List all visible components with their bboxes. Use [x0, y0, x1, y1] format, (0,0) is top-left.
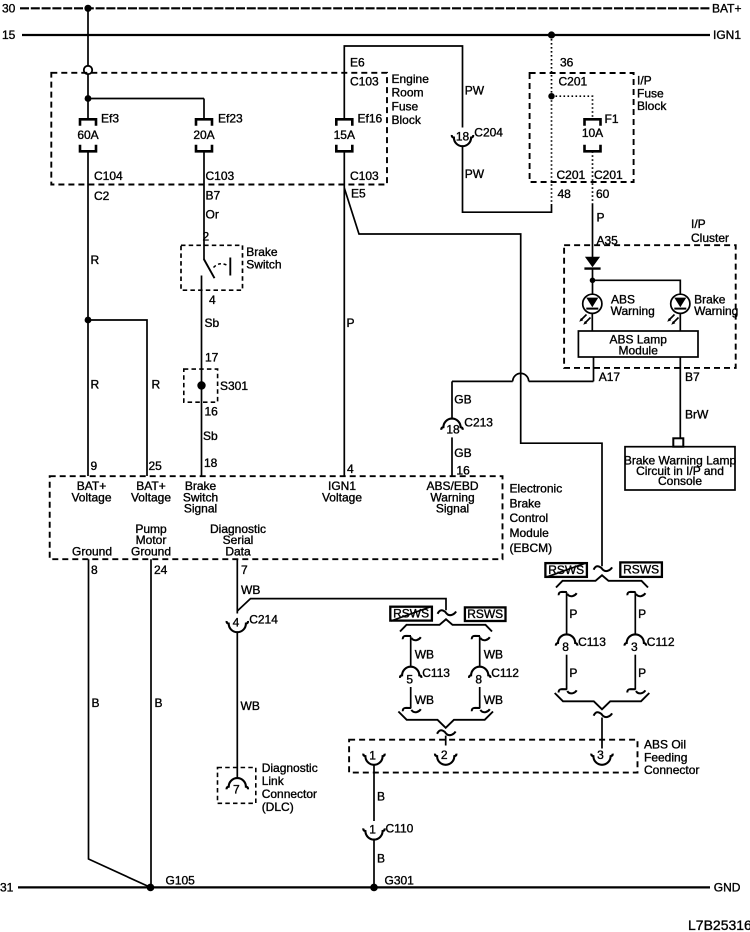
hook end right P branch	[627, 689, 635, 692]
wire to pin 48	[551, 96, 553, 204]
svg-text:P: P	[569, 607, 577, 621]
svg-text:10A: 10A	[582, 126, 603, 140]
svg-text:WB: WB	[241, 699, 260, 713]
connector C112 pin 8	[469, 667, 490, 678]
break symbol	[438, 610, 457, 615]
splice S301 box	[184, 369, 218, 402]
wire Sb switch to S301	[201, 276, 203, 477]
hook end left P branch	[559, 689, 567, 692]
svg-text:Signal: Signal	[184, 502, 217, 516]
svg-text:C214: C214	[249, 613, 278, 627]
svg-text:60A: 60A	[77, 128, 98, 142]
svg-text:18: 18	[446, 422, 460, 436]
svg-text:BrW: BrW	[685, 408, 709, 422]
fuse Ef16 15A	[336, 119, 352, 126]
svg-text:3: 3	[631, 640, 638, 654]
wire WB branch to C113	[410, 636, 412, 667]
wire P below C113	[566, 655, 568, 690]
RSWS box left struck	[390, 607, 432, 621]
node junction inside fuse block	[548, 93, 554, 99]
svg-text:Fuse: Fuse	[392, 99, 419, 113]
LED ABS warning	[583, 294, 602, 313]
hook end left branch	[403, 708, 411, 711]
svg-text:Connector: Connector	[644, 763, 699, 777]
svg-text:(DLC): (DLC)	[262, 800, 294, 814]
svg-text:Switch: Switch	[246, 257, 281, 271]
svg-text:WB: WB	[241, 583, 260, 597]
RSWS box right	[620, 562, 662, 577]
svg-text:Ef16: Ef16	[358, 111, 383, 125]
svg-text:P: P	[638, 666, 646, 680]
splice S301 dot	[197, 381, 205, 389]
wire WB horizontal to RSWS	[237, 599, 446, 611]
svg-text:B: B	[92, 696, 100, 710]
break symbol	[594, 712, 613, 717]
svg-text:P: P	[597, 211, 605, 225]
node G301	[370, 884, 378, 892]
svg-text:1: 1	[369, 748, 376, 762]
svg-text:B: B	[377, 790, 385, 804]
wire WB below C112	[479, 687, 481, 708]
svg-text:C113: C113	[578, 635, 606, 649]
svg-text:G105: G105	[166, 874, 196, 888]
svg-text:GND: GND	[714, 881, 741, 895]
svg-text:B: B	[155, 696, 163, 710]
svg-text:24: 24	[154, 563, 168, 577]
svg-text:P: P	[569, 666, 577, 680]
svg-text:WB: WB	[484, 693, 503, 707]
svg-text:RSWS: RSWS	[623, 562, 659, 576]
wire Or from Ef23 to brake switch	[203, 151, 205, 259]
brake switch blade	[204, 259, 215, 278]
svg-text:C104: C104	[94, 169, 123, 183]
connector circle at fuse block entry	[84, 66, 92, 74]
wire A17 from lamp module	[593, 357, 595, 381]
svg-text:8: 8	[91, 563, 98, 577]
svg-text:I/P: I/P	[691, 217, 706, 231]
svg-text:8: 8	[475, 672, 482, 686]
svg-text:4: 4	[347, 462, 354, 476]
wire P below C112	[634, 655, 636, 690]
svg-text:C204: C204	[474, 126, 503, 140]
svg-text:7: 7	[241, 563, 248, 577]
node junction bus30 x88	[84, 5, 91, 12]
svg-text:E6: E6	[350, 56, 365, 70]
svg-text:Sb: Sb	[203, 429, 218, 443]
svg-text:Voltage: Voltage	[131, 490, 171, 504]
svg-text:9: 9	[91, 459, 98, 473]
LED Brake warning	[671, 294, 690, 313]
wire into engine fuse block	[87, 74, 89, 119]
connector square	[673, 438, 683, 446]
svg-text:3: 3	[597, 748, 604, 762]
brake switch arc	[214, 264, 227, 268]
svg-text:Signal: Signal	[436, 502, 469, 516]
svg-text:S301: S301	[220, 379, 248, 393]
svg-text:Sb: Sb	[205, 316, 220, 330]
svg-text:C103: C103	[350, 169, 379, 183]
hook start left P branch	[559, 592, 567, 595]
svg-text:C112: C112	[647, 635, 675, 649]
svg-text:Console: Console	[658, 474, 702, 488]
node junction R branch	[85, 317, 92, 324]
svg-text:Room: Room	[392, 86, 424, 100]
svg-text:PW: PW	[465, 167, 485, 181]
svg-text:P: P	[347, 316, 355, 330]
wire P from Ef16 to EBCM pin4	[343, 151, 345, 476]
diode	[585, 257, 600, 267]
svg-text:18: 18	[456, 130, 470, 144]
svg-text:B7: B7	[206, 189, 221, 203]
wire diode to junction	[592, 269, 594, 295]
fuse Ef3 60A	[80, 119, 96, 126]
wire to pin 2	[445, 736, 447, 746]
bus 30 BAT+	[20, 7, 710, 9]
connector C113 pin 8	[556, 634, 577, 645]
wire PW to I/P fuse block pin 48	[463, 146, 552, 212]
svg-text:C201: C201	[594, 168, 623, 182]
svg-text:5: 5	[406, 672, 413, 686]
ABS lamp module box	[578, 331, 698, 357]
wire WB below C113	[410, 687, 412, 708]
wire pin8 to G105	[89, 559, 151, 887]
merge brace WB pair	[398, 712, 493, 728]
svg-text:Block: Block	[637, 99, 667, 113]
node junction x88 y98.5	[85, 95, 92, 102]
svg-text:IGN1: IGN1	[713, 28, 741, 42]
svg-text:C213: C213	[464, 415, 493, 429]
wire R branch to pin25	[88, 320, 147, 476]
hook start right P branch	[627, 592, 635, 595]
svg-text:31: 31	[0, 880, 14, 894]
wire pin24 to G105	[150, 559, 152, 887]
wire branch diagonal to RSWS feed	[344, 188, 602, 566]
svg-text:P: P	[638, 607, 646, 621]
wire GB horizontal with hop	[529, 380, 594, 382]
svg-text:4: 4	[209, 293, 216, 307]
svg-text:Diagnostic: Diagnostic	[262, 761, 318, 775]
fuse Ef23 20A	[196, 119, 212, 126]
hook start right branch	[472, 636, 480, 639]
svg-text:WB: WB	[415, 647, 434, 661]
svg-text:Ef23: Ef23	[218, 111, 243, 125]
bus 31 GND	[18, 886, 710, 888]
svg-text:Cluster: Cluster	[691, 231, 729, 245]
svg-text:Engine: Engine	[392, 72, 430, 86]
svg-text:R: R	[91, 377, 100, 391]
wire GB to EBCM pin16	[451, 437, 453, 476]
svg-text:C112: C112	[491, 666, 519, 680]
svg-text:48: 48	[558, 187, 572, 201]
DLC connector pin 7	[227, 778, 248, 789]
svg-text:Voltage: Voltage	[322, 490, 362, 504]
wire P to C113	[566, 592, 568, 634]
wire WB to DLC	[236, 632, 238, 778]
svg-text:Electronic: Electronic	[510, 482, 563, 496]
svg-text:Warning: Warning	[694, 304, 738, 318]
break symbol	[594, 566, 613, 571]
svg-text:C113: C113	[422, 666, 450, 680]
bus 15 IGN1	[22, 34, 710, 36]
svg-text:R: R	[91, 253, 100, 267]
brake warning lamp circuit box	[625, 447, 735, 490]
svg-text:2: 2	[441, 748, 448, 762]
wire to fuse F1	[552, 96, 593, 119]
svg-text:E5: E5	[351, 187, 366, 201]
DLC box	[218, 768, 256, 804]
svg-text:WB: WB	[484, 647, 503, 661]
wire B pin1 down	[373, 765, 375, 821]
svg-text:RSWS: RSWS	[467, 607, 503, 621]
svg-text:Control: Control	[510, 511, 549, 525]
wire BAT+ feed down	[87, 8, 89, 66]
svg-text:Module: Module	[619, 343, 659, 357]
engine room fuse block box	[51, 73, 387, 185]
svg-text:Connector: Connector	[262, 787, 317, 801]
node junction bus15 x551.5	[548, 31, 555, 38]
svg-text:2: 2	[203, 229, 210, 243]
svg-text:Warning: Warning	[611, 304, 655, 318]
svg-text:Voltage: Voltage	[71, 490, 111, 504]
svg-text:Brake: Brake	[510, 496, 542, 510]
svg-text:16: 16	[205, 405, 219, 419]
node G105	[147, 884, 155, 892]
wire 36 into I/P fuse block	[551, 35, 553, 96]
svg-text:Link: Link	[262, 774, 285, 788]
svg-text:Ground: Ground	[72, 544, 112, 558]
RSWS box left struck	[545, 563, 587, 577]
svg-text:20A: 20A	[193, 128, 214, 142]
svg-text:PW: PW	[465, 83, 485, 97]
svg-text:F1: F1	[605, 112, 619, 126]
svg-text:Block: Block	[392, 113, 422, 127]
hook start left branch	[403, 636, 411, 639]
svg-text:8: 8	[562, 640, 569, 654]
wire B7 from lamp module	[679, 357, 681, 438]
svg-text:C103: C103	[206, 169, 235, 183]
svg-text:Module: Module	[510, 526, 550, 540]
svg-text:C201: C201	[557, 168, 586, 182]
hook end right branch	[472, 708, 480, 711]
brake switch box	[181, 245, 243, 290]
svg-text:C201: C201	[559, 74, 588, 88]
svg-text:4: 4	[233, 616, 240, 630]
svg-text:15A: 15A	[334, 128, 355, 142]
wire to pin 3	[601, 718, 603, 749]
wire branch to fuse Ef23	[88, 98, 204, 100]
connector C112 pin 3	[625, 634, 646, 645]
I/P fuse block box	[530, 73, 634, 182]
svg-text:A17: A17	[599, 370, 621, 384]
svg-text:GB: GB	[454, 392, 471, 406]
svg-text:B: B	[377, 852, 385, 866]
wire B to G301	[373, 840, 375, 888]
fuse F1 10A	[585, 119, 601, 126]
svg-text:(EBCM): (EBCM)	[510, 541, 553, 555]
svg-text:GB: GB	[454, 446, 471, 460]
svg-text:Data: Data	[225, 544, 251, 558]
wire branch to brake warning lamp	[593, 280, 681, 294]
svg-text:Or: Or	[206, 208, 219, 222]
wire WB from EBCM pin7	[236, 559, 238, 613]
wire from F1 to pin 60	[592, 151, 594, 204]
svg-text:R: R	[152, 377, 161, 391]
RSWS box right	[465, 607, 506, 621]
svg-text:7: 7	[233, 783, 240, 797]
wire P to cluster A35	[592, 204, 594, 257]
svg-text:60: 60	[596, 187, 610, 201]
wire E6 top link	[344, 46, 462, 128]
svg-text:Ground: Ground	[131, 544, 171, 558]
wire GB down to C213	[451, 381, 453, 418]
ABS oil feeding connector box	[349, 740, 637, 773]
node junction cluster	[590, 278, 596, 284]
split brace P pair	[556, 575, 648, 587]
svg-text:15: 15	[2, 28, 16, 42]
brake switch fixed contact	[229, 258, 231, 276]
wire P to C112	[634, 592, 636, 634]
svg-text:BAT+: BAT+	[712, 2, 741, 16]
svg-text:36: 36	[560, 56, 574, 70]
svg-text:30: 30	[2, 2, 16, 16]
svg-text:17: 17	[205, 351, 219, 365]
svg-text:18: 18	[204, 456, 218, 470]
EBCM box	[50, 476, 503, 559]
svg-text:C110: C110	[386, 821, 414, 835]
svg-text:Ef3: Ef3	[101, 111, 119, 125]
break symbol	[437, 730, 456, 735]
svg-text:WB: WB	[415, 693, 434, 707]
svg-text:L7B25316: L7B25316	[688, 917, 750, 932]
svg-text:1: 1	[369, 822, 376, 836]
merge brace P pair	[555, 693, 650, 709]
svg-text:25: 25	[149, 459, 163, 473]
svg-text:C2: C2	[94, 189, 110, 203]
wire WB branch to C112	[479, 636, 481, 667]
wire R from Ef3 to EBCM pin9	[87, 151, 89, 476]
I/P cluster box	[564, 245, 736, 368]
connector C213 pin 18	[441, 419, 462, 430]
svg-text:G301: G301	[385, 873, 415, 887]
svg-text:B7: B7	[685, 370, 700, 384]
split brace WB pair	[400, 619, 492, 631]
svg-text:C103: C103	[350, 74, 379, 88]
wire LEDs into lamp module	[591, 313, 593, 331]
connector C113 pin 5	[400, 667, 421, 678]
